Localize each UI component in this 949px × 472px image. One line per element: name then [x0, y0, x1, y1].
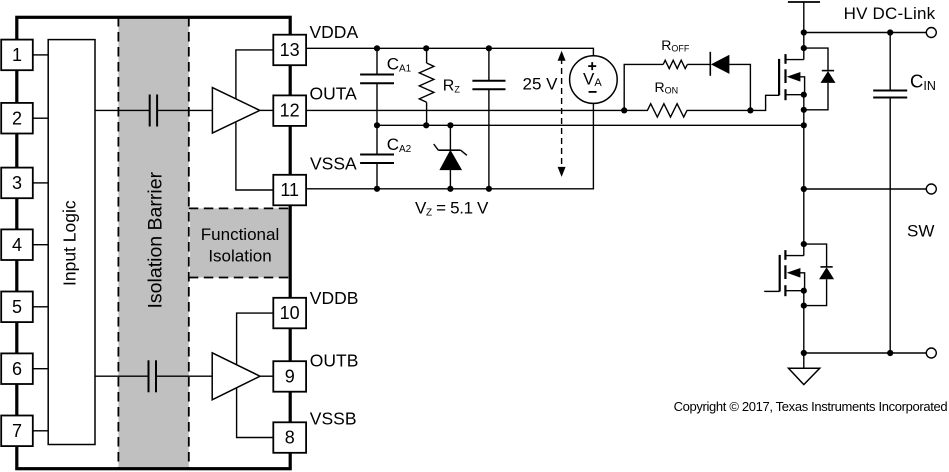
- pin 11: [273, 175, 306, 206]
- wire input logic to isolation cap B: [95, 375, 149, 377]
- node HV/CIN: [887, 29, 893, 35]
- node VDDA/RZ junction: [423, 45, 429, 51]
- svg-text:10: 10: [280, 303, 300, 323]
- node VDDA/bypass-cap junction: [486, 45, 492, 51]
- pin 4: [1, 229, 33, 260]
- pin 2: [1, 103, 33, 134]
- diode D2 body diode: [804, 244, 834, 306]
- svg-text:9: 9: [285, 367, 295, 387]
- node D2 anode junction: [801, 303, 807, 309]
- svg-text:5: 5: [12, 297, 22, 317]
- node Q1 source: [801, 92, 807, 98]
- wire pin4 stub: [33, 244, 48, 246]
- svg-text:HV DC-Link: HV DC-Link: [844, 4, 936, 23]
- wire pin6 stub: [33, 368, 48, 370]
- transistor Q2 low-side MOSFET: [764, 250, 804, 296]
- wire bottom rail: [804, 352, 927, 354]
- pin 1: [1, 40, 33, 71]
- wire ROFF to diode: [687, 63, 710, 65]
- svg-text:25 V: 25 V: [523, 74, 559, 93]
- diode DOFF: [710, 52, 729, 76]
- node mid-rail/MOSFET source junction: [801, 122, 807, 128]
- node SW/main vertical: [801, 186, 807, 192]
- node VSSA/zener junction: [447, 186, 453, 192]
- svg-text:VDDB: VDDB: [310, 288, 359, 308]
- IC outer box: [17, 17, 290, 468]
- node Q1 drain/diode junction: [801, 45, 807, 51]
- node mid-rail/CA2 junction: [374, 122, 380, 128]
- node Q2 source: [801, 288, 807, 294]
- zener diode VZ: [434, 125, 467, 189]
- node bottom rail/CIN: [887, 350, 893, 356]
- wire input logic to isolation cap A: [95, 109, 150, 111]
- isolation capacitor A: [150, 95, 157, 127]
- isolation barrier gray band: [118, 17, 188, 468]
- wire pin3 stub: [33, 182, 48, 184]
- voltage source VA: [570, 56, 618, 104]
- diode D1 body diode: [804, 48, 836, 110]
- pin 13: [273, 35, 306, 65]
- wire mid rail (driver return): [377, 124, 804, 126]
- pin 5: [1, 292, 33, 323]
- node mid-rail/zener junction: [447, 122, 453, 128]
- op-amp driver A: [212, 88, 259, 133]
- pin 3: [1, 168, 33, 199]
- wire ROFF branch: [624, 64, 663, 110]
- wire VDDA/VSSA supply of driver A: [236, 50, 273, 190]
- resistor RZ: [419, 48, 434, 125]
- pin 7: [1, 416, 33, 447]
- svg-text:1: 1: [12, 45, 22, 65]
- pin 8: [273, 422, 306, 453]
- pin 6: [1, 353, 33, 384]
- node VSSA/bypass-cap junction: [486, 186, 492, 192]
- svg-text:VSSA: VSSA: [310, 154, 357, 174]
- input logic box: [48, 40, 95, 445]
- pin 9: [273, 361, 306, 392]
- svg-text:8: 8: [285, 428, 295, 448]
- wire driver A output to pin 12: [260, 109, 274, 111]
- node VDDA/CA1 junction: [374, 45, 380, 51]
- wire VDDB/VSSB supply of driver B: [237, 313, 274, 437]
- op-amp driver B: [212, 353, 260, 400]
- wire driver B output to pin 9: [260, 375, 273, 377]
- wire pin7 stub: [33, 430, 48, 432]
- svg-text:OUTB: OUTB: [310, 350, 359, 370]
- svg-text:VDDA: VDDA: [310, 22, 359, 42]
- wire VSSA rail: [306, 103, 593, 188]
- capacitor bypass (unlabeled): [472, 48, 505, 189]
- ground: [789, 353, 820, 385]
- wire isolation cap B to driver B: [156, 375, 212, 377]
- terminal HV DC-link: [926, 28, 936, 38]
- wire HV DC-link top bar: [788, 2, 820, 60]
- resistor ROFF: [663, 60, 687, 68]
- svg-text:OUTA: OUTA: [310, 84, 358, 104]
- svg-text:Functional: Functional: [201, 225, 279, 244]
- wire HV DC-link line: [804, 32, 927, 34]
- pin 12: [273, 95, 306, 126]
- svg-text:6: 6: [12, 359, 22, 379]
- svg-text:Isolation: Isolation: [208, 247, 271, 266]
- isolation capacitor B: [149, 360, 157, 392]
- terminal bottom: [926, 348, 936, 358]
- wire VDDA rail: [306, 48, 593, 56]
- wire diode to right junction: [729, 64, 750, 110]
- functional isolation box: [189, 208, 289, 277]
- resistor RON: [624, 104, 750, 117]
- node Q2 drain/diode junction: [801, 241, 807, 247]
- wire pin5 stub: [33, 306, 48, 308]
- node VSSA/CA2 junction: [374, 186, 380, 192]
- wire pin1 stub: [33, 54, 48, 56]
- wire OUTA line: [306, 109, 624, 111]
- node mid-rail/RZ junction: [423, 122, 429, 128]
- svg-text:4: 4: [12, 235, 22, 255]
- capacitor CA2: [360, 125, 394, 189]
- svg-text:Input Logic: Input Logic: [60, 200, 80, 286]
- svg-text:2: 2: [12, 108, 22, 128]
- wire pin2 stub: [33, 117, 48, 119]
- node D1 anode junction: [801, 107, 807, 113]
- node HV/main vertical: [801, 29, 807, 35]
- wire Q2 source to ground: [803, 291, 805, 353]
- svg-text:7: 7: [12, 421, 22, 441]
- wire SW line: [804, 188, 927, 190]
- svg-text:Isolation Barrier: Isolation Barrier: [145, 171, 167, 308]
- node ground junction: [801, 350, 807, 356]
- wire RON to gate step: [750, 95, 779, 110]
- transistor Q1 high-side MOSFET: [779, 54, 805, 100]
- svg-text:3: 3: [12, 173, 22, 193]
- svg-text:VSSB: VSSB: [310, 409, 357, 429]
- svg-text:13: 13: [280, 40, 300, 60]
- node ROFF/RON right junction: [747, 107, 753, 113]
- pin 10: [273, 298, 306, 329]
- wire main vertical Q1 source to Q2 drain: [803, 95, 805, 256]
- svg-text:SW: SW: [907, 222, 934, 241]
- 25V measurement dashed arrow: [558, 51, 566, 177]
- svg-text:Copyright © 2017, Texas Instru: Copyright © 2017, Texas Instruments Inco…: [674, 399, 948, 414]
- capacitor CIN: [873, 33, 907, 354]
- terminal SW: [926, 184, 936, 194]
- svg-text:12: 12: [280, 101, 300, 121]
- svg-text:11: 11: [280, 180, 299, 200]
- node ROFF/RON left junction: [621, 107, 627, 113]
- wire isolation cap A to driver A: [157, 109, 212, 111]
- capacitor CA1: [360, 48, 394, 125]
